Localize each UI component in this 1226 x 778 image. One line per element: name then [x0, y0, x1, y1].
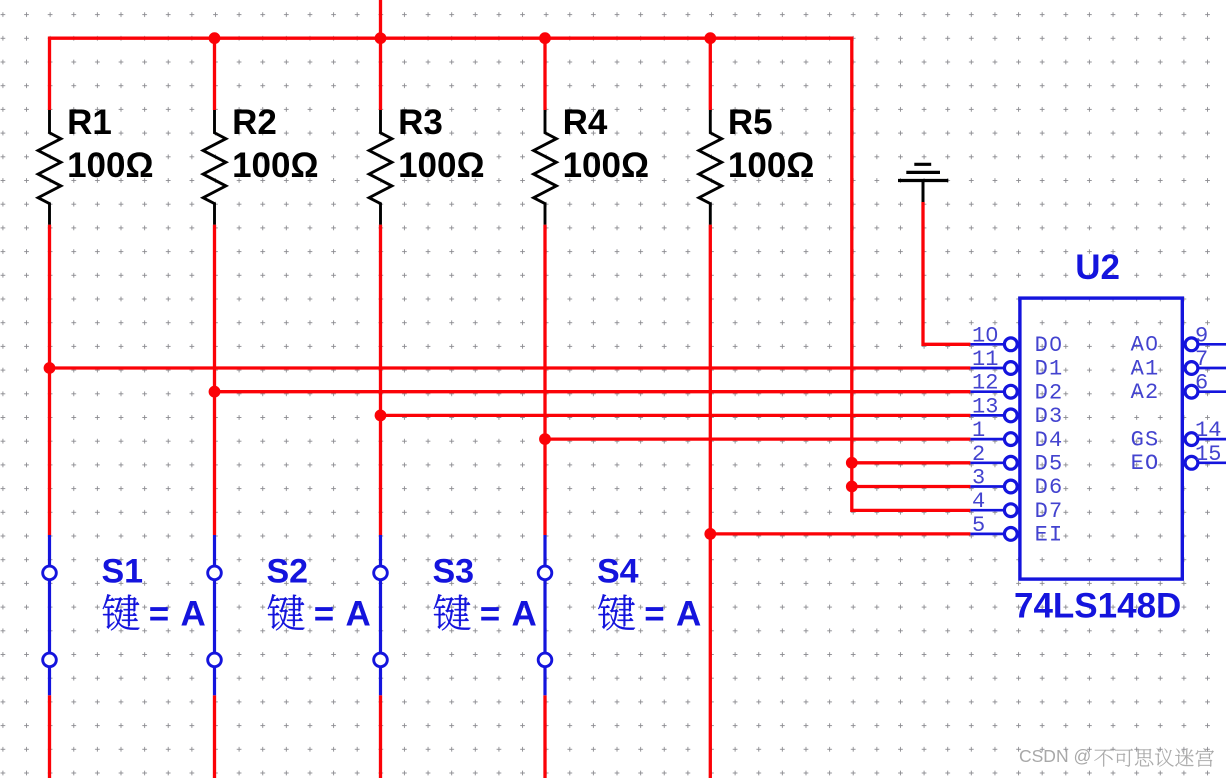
- svg-text:A: A: [346, 595, 371, 634]
- pin 6 terminal circle: [1185, 385, 1198, 398]
- svg-text:100Ω: 100Ω: [67, 146, 153, 185]
- svg-text:13: 13: [972, 394, 998, 419]
- wire: below switch S3 to bottom edge: [379, 695, 382, 778]
- pin 13 terminal circle: [1004, 409, 1017, 422]
- svg-text:D6: D6: [1035, 475, 1064, 500]
- switch S1 top terminal: [43, 566, 57, 580]
- svg-text:12: 12: [972, 371, 998, 396]
- wire: R4 bottom down to switch S4: [543, 225, 546, 535]
- pin 7 terminal circle: [1185, 362, 1198, 375]
- switch S4 bottom terminal: [538, 653, 552, 667]
- wire: stub from top edge of sheet down through bus junction to R3 top: [379, 0, 382, 110]
- node: junction node row EI from R5 column: [704, 528, 716, 540]
- svg-text:A: A: [676, 595, 701, 634]
- resistor R3: [369, 110, 392, 225]
- wire: below switch S1 to bottom edge: [48, 695, 51, 778]
- svg-text:R1: R1: [67, 103, 112, 142]
- svg-text:EO: EO: [1131, 451, 1160, 476]
- resistor R5: [699, 110, 722, 225]
- ground symbol: [898, 164, 948, 202]
- svg-text:R3: R3: [398, 103, 443, 142]
- svg-text:A2: A2: [1131, 380, 1160, 405]
- switch S3 body: [379, 535, 382, 695]
- pin 12 terminal circle: [1004, 385, 1017, 398]
- pin 11 terminal circle: [1004, 362, 1017, 375]
- wire: ground drop to D0 pin: [923, 202, 970, 344]
- pin 2 (D5) stub: [970, 461, 1019, 464]
- svg-text:S1: S1: [102, 552, 144, 590]
- label key = A of S3: [434, 594, 471, 630]
- svg-text:R4: R4: [563, 103, 608, 142]
- zero-dot masks: [990, 332, 994, 337]
- svg-text:A: A: [181, 595, 206, 634]
- svg-text:D0: D0: [1035, 333, 1064, 358]
- svg-text:R5: R5: [728, 103, 773, 142]
- node: junction node row D1 from S1 column: [44, 362, 56, 374]
- switch S1 bottom terminal: [43, 653, 57, 667]
- pin 5 terminal circle: [1004, 528, 1017, 541]
- wire: R5 bottom straight to bottom edge (through EI junction): [709, 225, 712, 778]
- svg-text:7: 7: [1195, 347, 1208, 372]
- svg-text:100Ω: 100Ω: [232, 146, 318, 185]
- pin 4 (D7) stub: [970, 509, 1019, 512]
- svg-text:D4: D4: [1035, 428, 1064, 453]
- switch S3 top terminal: [374, 566, 388, 580]
- svg-text:=: =: [480, 595, 500, 634]
- pin 10 (D0) stub: [970, 343, 1019, 346]
- wire: D5 branch from right corner vertical: [852, 461, 971, 464]
- pin 1 (D4) stub: [970, 438, 1019, 441]
- pin 2 terminal circle: [1004, 456, 1017, 469]
- node: bus junction: [704, 32, 716, 44]
- pin 3 terminal circle: [1004, 480, 1017, 493]
- svg-text:=: =: [149, 595, 169, 634]
- svg-text:15: 15: [1195, 442, 1221, 467]
- node: D6 junction: [846, 481, 858, 493]
- label key = A of S2: [268, 594, 305, 630]
- svg-text:EI: EI: [1035, 523, 1064, 548]
- svg-text:S2: S2: [267, 552, 309, 590]
- wire: node row D3 from S3 column: [381, 414, 971, 417]
- wire: R2 bottom down to switch S2: [213, 225, 216, 535]
- svg-text:14: 14: [1195, 418, 1221, 443]
- svg-text:6: 6: [1195, 371, 1208, 396]
- svg-text:1: 1: [972, 418, 985, 443]
- svg-text:100Ω: 100Ω: [398, 146, 484, 185]
- switch S1 body: [48, 535, 51, 695]
- node: junction node row D3 from S3 column: [375, 410, 387, 422]
- svg-text:=: =: [314, 595, 334, 634]
- wire: node row EI from R5 column: [710, 532, 970, 535]
- wire: below switch S2 to bottom edge: [213, 695, 216, 778]
- svg-text:R2: R2: [232, 103, 277, 142]
- svg-text:D1: D1: [1035, 357, 1064, 382]
- node: D5 junction: [846, 457, 858, 469]
- label key = A of S4: [598, 594, 635, 630]
- svg-text:D5: D5: [1035, 452, 1064, 477]
- wire: R3 bottom down to switch S3: [379, 225, 382, 535]
- svg-text:100Ω: 100Ω: [563, 146, 649, 185]
- resistor R1: [38, 110, 61, 225]
- pin 14 (GS) stub: [1183, 438, 1226, 441]
- svg-text:2: 2: [972, 442, 985, 467]
- svg-text:5: 5: [972, 513, 985, 538]
- pin 9 (A0) stub: [1183, 343, 1226, 346]
- pin 9 terminal circle: [1185, 338, 1198, 351]
- svg-text:A0: A0: [1131, 333, 1160, 358]
- wire: below switch S4 to bottom edge: [543, 695, 546, 778]
- wire: node row D4 from S4 column: [545, 437, 970, 440]
- svg-text:11: 11: [972, 347, 998, 372]
- wire: node row D2 from S2 column: [215, 390, 971, 393]
- svg-text:GS: GS: [1131, 428, 1160, 453]
- svg-text:S4: S4: [597, 552, 639, 590]
- wire: R1 bottom down to switch S1: [48, 225, 51, 535]
- svg-text:D7: D7: [1035, 499, 1064, 524]
- pin 1 terminal circle: [1004, 433, 1017, 446]
- op-amp/IC U2 74LS148D box: [1020, 298, 1182, 579]
- pin 4 terminal circle: [1004, 504, 1017, 517]
- svg-text:A: A: [512, 595, 537, 634]
- switch S2 top terminal: [208, 566, 222, 580]
- pin 7 (A1) stub: [1183, 367, 1226, 370]
- svg-text:U2: U2: [1075, 248, 1120, 287]
- pin 15 (EO) stub: [1183, 461, 1226, 464]
- node: bus junction: [375, 32, 387, 44]
- resistor R2: [203, 110, 226, 225]
- node: bus junction: [209, 32, 221, 44]
- switch S2 bottom terminal: [208, 653, 222, 667]
- node: junction node row D2 from S2 column: [209, 386, 221, 398]
- label key = A of S1: [103, 594, 140, 630]
- node: junction node row D4 from S4 column: [539, 433, 551, 445]
- resistor R4: [534, 110, 557, 225]
- node: bus junction: [539, 32, 551, 44]
- pin 13 (D3) stub: [970, 414, 1019, 417]
- wire: bus drop to R2 top: [213, 38, 216, 110]
- wire: top supply bus from R1 top-left corner across to right corner, down to D7 row, into pin 4 (D7): [50, 38, 971, 510]
- pin 3 (D6) stub: [970, 485, 1019, 488]
- svg-text:D2: D2: [1035, 380, 1064, 405]
- svg-text:D3: D3: [1035, 404, 1064, 429]
- wire: bus drop to R5 top: [709, 38, 712, 110]
- pin 15 terminal circle: [1185, 456, 1198, 469]
- switch S4 body: [543, 535, 546, 695]
- pin 5 (EI) stub: [970, 533, 1019, 536]
- pin 12 (D2) stub: [970, 390, 1019, 393]
- switch S2 body: [213, 535, 216, 695]
- svg-text:4: 4: [972, 489, 985, 514]
- svg-text:9: 9: [1195, 323, 1208, 348]
- svg-text:3: 3: [972, 466, 985, 491]
- svg-text:S3: S3: [433, 552, 475, 590]
- wire: bus drop to R4 top: [543, 38, 546, 110]
- pin 10 terminal circle: [1004, 338, 1017, 351]
- wire: D6 branch from right corner vertical: [852, 485, 971, 488]
- switch S4 top terminal: [538, 566, 552, 580]
- wire: node row D1 from S1 column: [50, 366, 971, 369]
- svg-text:10: 10: [972, 323, 998, 348]
- svg-text:CSDN @: CSDN @: [1019, 746, 1091, 766]
- pin 14 terminal circle: [1185, 433, 1198, 446]
- watermark CSDN: [1019, 746, 1215, 768]
- svg-text:74LS148D: 74LS148D: [1014, 587, 1181, 626]
- pin 11 (D1) stub: [970, 367, 1019, 370]
- svg-text:=: =: [644, 595, 664, 634]
- switch S3 bottom terminal: [374, 653, 388, 667]
- pin 6 (A2) stub: [1183, 390, 1226, 393]
- svg-text:A1: A1: [1131, 356, 1160, 381]
- svg-text:100Ω: 100Ω: [728, 146, 814, 185]
